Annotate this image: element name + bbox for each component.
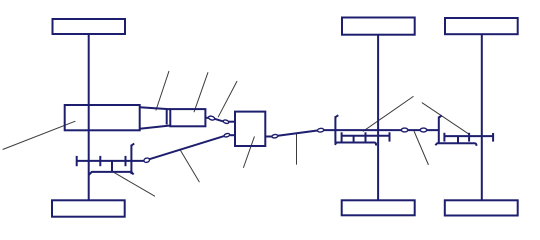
leader to gearbox	[194, 73, 208, 112]
front diff input bar hook	[131, 144, 134, 146]
wheel middle-right (bottom)	[342, 200, 415, 215]
transfer case rear output stub	[265, 136, 272, 138]
u-joint 6 (rear propshaft)	[317, 128, 324, 132]
middle axle line	[377, 35, 379, 201]
front diff hanging tick	[111, 161, 113, 172]
u-joint 2 (transfer case input)	[223, 119, 229, 124]
wheel rear-right (bottom)	[445, 200, 518, 215]
u-joint 3 (transfer case front output)	[224, 133, 230, 138]
leader to front propshaft	[180, 150, 199, 182]
middle diff input bar hook	[335, 115, 338, 117]
leader to clutch	[156, 71, 169, 110]
rear diff hanging tick	[457, 136, 459, 143]
middle diff tick 3	[389, 132, 391, 141]
rear diff input bar	[438, 117, 440, 144]
wheel front-left	[53, 19, 126, 34]
rear diff tick 1	[443, 133, 445, 142]
rear diff gear line	[444, 135, 493, 137]
wheel rear-left (top)	[445, 18, 518, 34]
middle diff gear line	[342, 135, 390, 137]
front diff tick left	[76, 156, 78, 166]
wheel middle-left (top)	[342, 18, 415, 35]
transfer case front output stub	[230, 134, 235, 136]
engine	[65, 105, 140, 130]
middle diff input bar	[334, 116, 336, 143]
middle diff housing bracket	[335, 143, 376, 146]
front diff input bar	[130, 145, 132, 174]
u-joint 4 (front axle input)	[143, 157, 150, 163]
u-joint 7 (inter-axle shaft front)	[401, 128, 408, 132]
leader to rear axle diff	[422, 103, 469, 135]
u-joint 5 (transfer case rear output)	[272, 134, 278, 138]
rear diff tick 3	[492, 133, 494, 142]
leader to middle axle diff	[363, 97, 413, 132]
leader to rear propshaft (vertical)	[296, 134, 298, 165]
rear diff housing bracket	[435, 143, 476, 146]
wheel front-right (bottom)	[52, 200, 125, 216]
shaft gearbox to transfer case	[215, 119, 224, 122]
front diff housing bracket	[89, 172, 134, 175]
u-joint 1 (gearbox output)	[208, 115, 215, 120]
front diff tick 3	[125, 156, 127, 166]
front diff half-shaft line	[77, 160, 144, 162]
front propeller shaft	[149, 136, 224, 159]
leader to front diff housing	[114, 173, 154, 197]
clutch bell housing (trapezoid)	[140, 107, 171, 128]
leader to engine	[3, 121, 75, 149]
leader to u-joint 1	[218, 81, 237, 116]
rear axle line	[481, 34, 483, 200]
inter-axle shaft	[324, 129, 439, 131]
rear diff input bar hook	[439, 116, 442, 118]
middle diff tick 1	[341, 132, 343, 141]
middle diff hanging tick	[353, 136, 355, 143]
front diff tick 2	[99, 156, 101, 166]
front axle line	[88, 34, 90, 200]
rear propeller shaft	[278, 131, 318, 136]
transfer case input stub	[229, 121, 235, 123]
transfer case	[235, 112, 265, 146]
u-joint 8 (inter-axle shaft rear)	[420, 128, 427, 132]
gearbox	[170, 109, 205, 126]
rear diff tick 2	[468, 133, 470, 142]
leader to inter-axle shaft	[414, 132, 428, 165]
middle diff tick 2	[365, 132, 367, 141]
gearbox output stub	[205, 117, 208, 119]
leader to transfer case	[244, 137, 255, 168]
